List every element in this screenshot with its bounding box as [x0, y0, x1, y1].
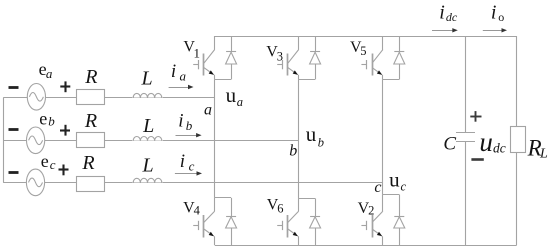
svg-text:R: R: [84, 110, 97, 132]
svg-text:L: L: [141, 68, 153, 90]
svg-text:C: C: [443, 133, 456, 154]
svg-text:i: i: [180, 151, 185, 172]
svg-text:L: L: [142, 154, 154, 176]
svg-text:L: L: [539, 147, 548, 162]
svg-text:e: e: [41, 151, 49, 171]
svg-text:i: i: [439, 2, 445, 24]
svg-text:4: 4: [194, 204, 201, 218]
svg-text:L: L: [142, 115, 154, 137]
svg-text:a: a: [180, 69, 187, 84]
svg-text:2: 2: [368, 204, 374, 218]
svg-text:dc: dc: [446, 10, 458, 24]
svg-text:i: i: [491, 2, 497, 24]
svg-text:5: 5: [360, 44, 366, 58]
svg-text:e: e: [39, 109, 47, 129]
svg-text:c: c: [189, 159, 195, 174]
svg-text:a: a: [237, 95, 243, 109]
svg-text:b: b: [48, 114, 55, 129]
svg-text:c: c: [374, 179, 381, 196]
svg-text:a: a: [46, 66, 53, 81]
svg-text:b: b: [289, 142, 297, 159]
svg-text:c: c: [50, 157, 56, 172]
svg-text:i: i: [171, 61, 176, 82]
svg-text:R: R: [81, 152, 94, 174]
svg-text:b: b: [318, 136, 324, 150]
svg-text:u: u: [306, 122, 317, 146]
svg-text:u: u: [226, 83, 237, 107]
svg-text:dc: dc: [493, 141, 506, 156]
svg-text:3: 3: [277, 49, 283, 63]
svg-text:c: c: [401, 179, 407, 193]
svg-text:o: o: [498, 10, 504, 24]
svg-text:a: a: [204, 102, 212, 119]
svg-text:u: u: [389, 168, 400, 192]
svg-text:6: 6: [277, 201, 283, 215]
svg-text:u: u: [479, 127, 493, 157]
svg-text:b: b: [186, 118, 193, 133]
svg-text:i: i: [178, 111, 183, 132]
svg-text:R: R: [84, 66, 97, 88]
svg-text:1: 1: [194, 46, 201, 61]
